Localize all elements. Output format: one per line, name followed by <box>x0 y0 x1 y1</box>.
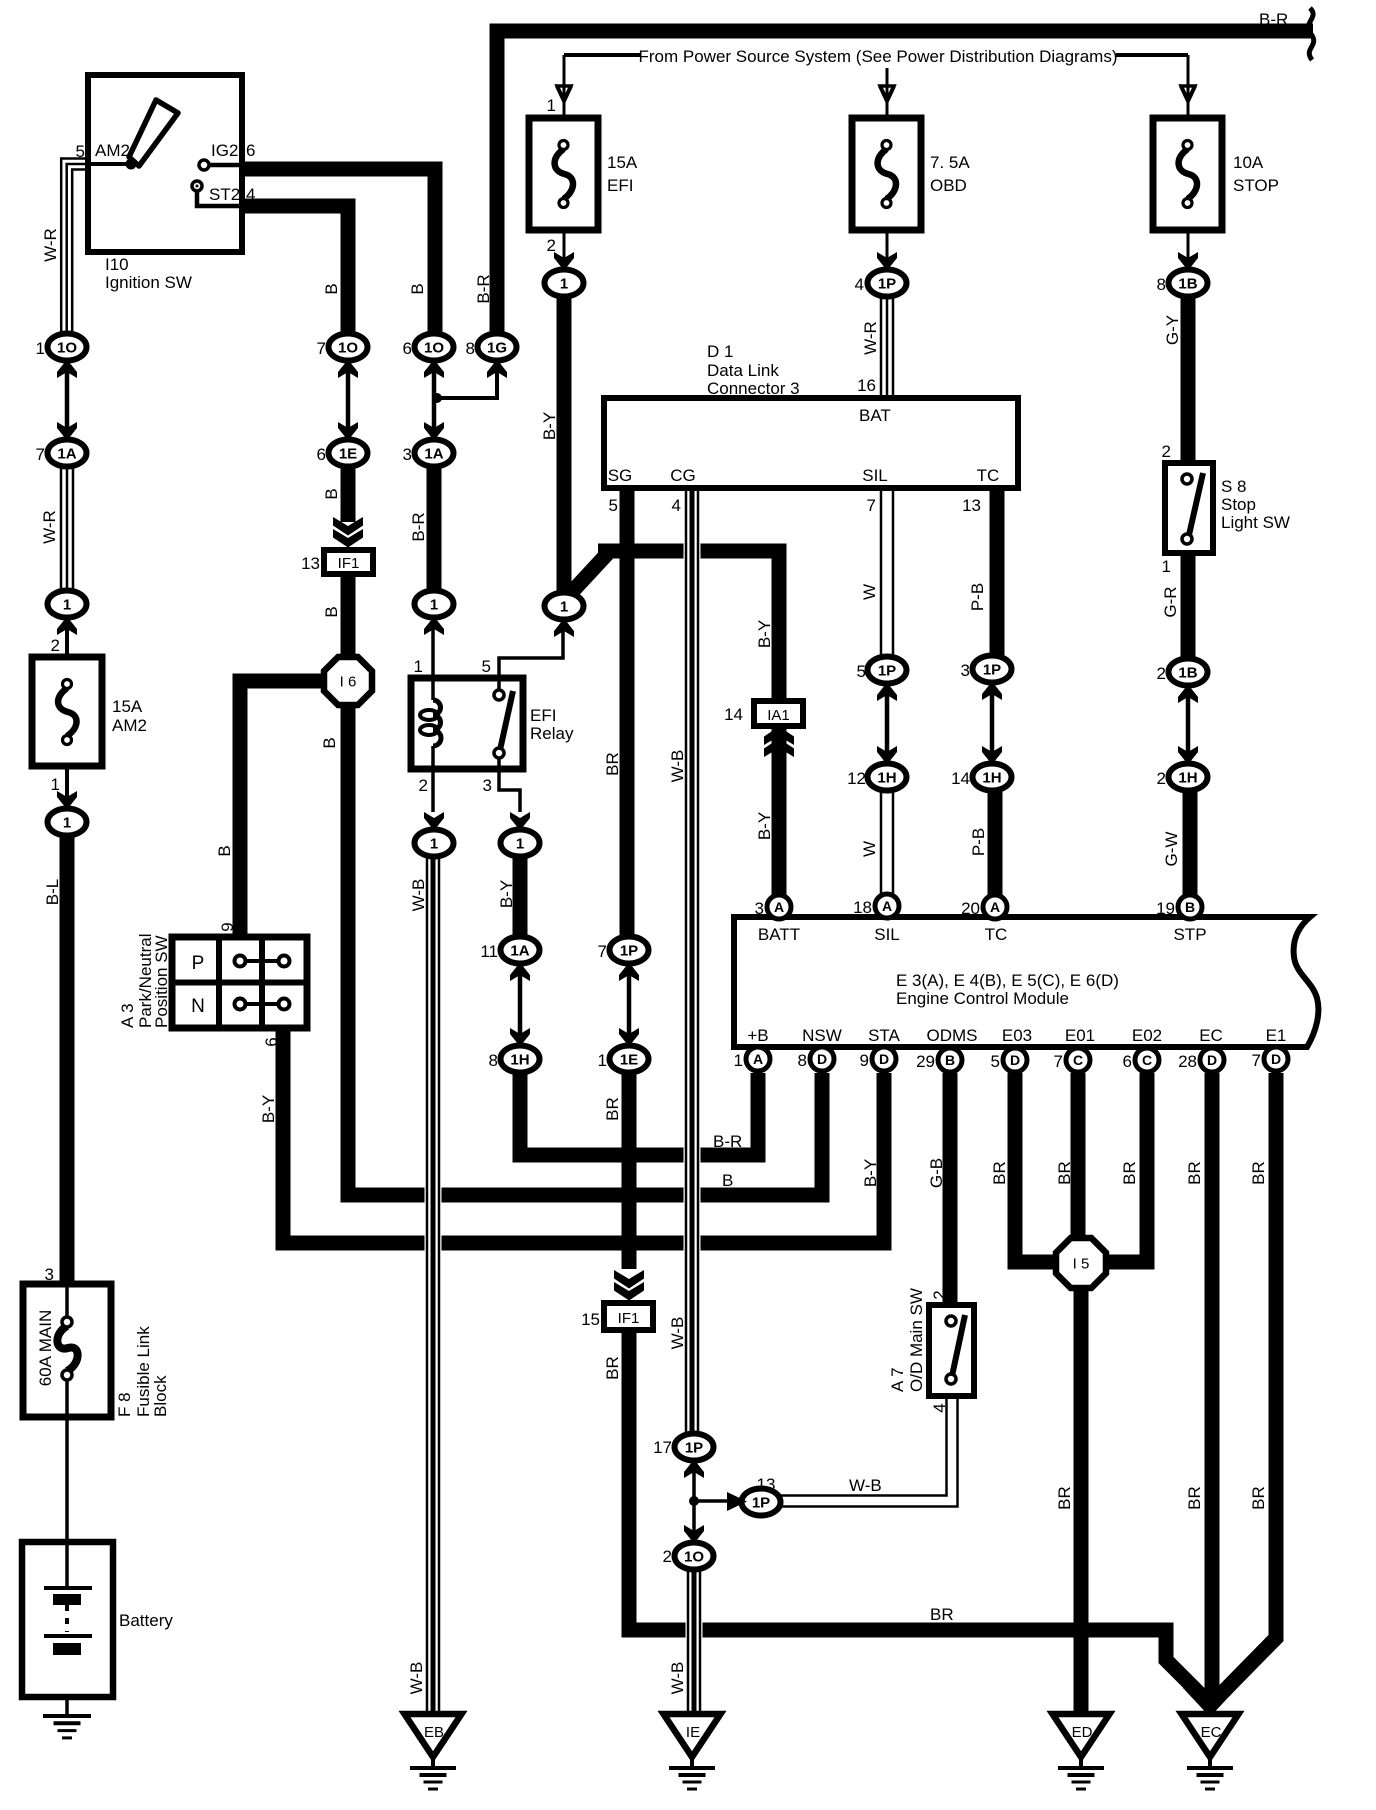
svg-text:EB: EB <box>424 1724 444 1741</box>
svg-text:15A: 15A <box>607 153 638 172</box>
svg-text:CG: CG <box>670 466 696 485</box>
svg-text:BR: BR <box>603 1356 622 1380</box>
svg-text:BAT: BAT <box>859 406 891 425</box>
svg-text:Battery: Battery <box>119 1611 173 1630</box>
svg-text:P: P <box>192 953 205 974</box>
svg-text:O/D Main SW: O/D Main SW <box>907 1288 926 1392</box>
svg-text:7: 7 <box>1252 1051 1261 1070</box>
svg-text:2: 2 <box>1157 769 1166 788</box>
svg-text:18: 18 <box>853 898 872 917</box>
svg-text:15: 15 <box>581 1310 600 1329</box>
svg-text:B-R: B-R <box>1259 10 1288 29</box>
svg-text:14: 14 <box>951 769 970 788</box>
svg-text:4: 4 <box>930 1403 949 1412</box>
svg-text:Block: Block <box>151 1375 170 1417</box>
svg-text:TC: TC <box>985 925 1008 944</box>
svg-text:2: 2 <box>51 636 60 655</box>
svg-text:P-B: P-B <box>968 583 987 611</box>
svg-text:E02: E02 <box>1132 1026 1162 1045</box>
svg-text:1O: 1O <box>424 340 444 357</box>
svg-text:7. 5A: 7. 5A <box>930 153 970 172</box>
svg-text:14: 14 <box>724 705 743 724</box>
svg-text:W-B: W-B <box>668 1317 687 1350</box>
svg-text:BR: BR <box>930 1605 954 1624</box>
svg-text:1: 1 <box>598 1051 607 1070</box>
svg-text:B: B <box>320 737 339 748</box>
svg-text:1P: 1P <box>878 276 896 293</box>
svg-text:B: B <box>945 1052 955 1068</box>
svg-text:1: 1 <box>547 96 556 115</box>
svg-text:6: 6 <box>317 445 326 464</box>
svg-text:1: 1 <box>51 775 60 794</box>
svg-text:3: 3 <box>961 661 970 680</box>
svg-text:B-Y: B-Y <box>861 1159 880 1187</box>
svg-text:B-Y: B-Y <box>497 880 516 908</box>
svg-text:BATT: BATT <box>758 925 800 944</box>
svg-text:1B: 1B <box>1178 665 1197 682</box>
svg-text:B-Y: B-Y <box>259 1095 278 1123</box>
svg-text:5: 5 <box>857 662 866 681</box>
svg-text:EFI: EFI <box>530 706 556 725</box>
svg-text:SG: SG <box>608 466 633 485</box>
svg-text:IA1: IA1 <box>767 707 790 724</box>
svg-text:1P: 1P <box>983 662 1001 679</box>
svg-text:1B: 1B <box>1178 276 1197 293</box>
svg-text:S 8: S 8 <box>1221 477 1247 496</box>
svg-text:7: 7 <box>317 339 326 358</box>
svg-text:B-L: B-L <box>43 879 62 905</box>
svg-text:+B: +B <box>747 1026 768 1045</box>
svg-text:A: A <box>990 899 1000 915</box>
svg-text:1H: 1H <box>982 770 1001 787</box>
svg-text:1A: 1A <box>57 446 76 463</box>
svg-text:A: A <box>753 1051 763 1067</box>
svg-text:7: 7 <box>36 445 45 464</box>
svg-text:1: 1 <box>63 815 71 832</box>
svg-text:7: 7 <box>867 496 876 515</box>
svg-text:B-R: B-R <box>713 1132 742 1151</box>
svg-text:Position SW: Position SW <box>152 935 171 1028</box>
svg-text:B: B <box>722 1171 733 1190</box>
svg-text:ODMS: ODMS <box>927 1026 978 1045</box>
svg-text:B: B <box>322 283 341 294</box>
svg-text:5: 5 <box>609 496 618 515</box>
svg-text:1P: 1P <box>878 663 896 680</box>
svg-text:1: 1 <box>36 339 45 358</box>
svg-text:16: 16 <box>857 376 876 395</box>
svg-text:1P: 1P <box>620 943 638 960</box>
svg-text:W-R: W-R <box>40 510 59 544</box>
svg-text:D: D <box>1207 1052 1217 1068</box>
svg-text:W-B: W-B <box>849 1476 882 1495</box>
svg-text:1P: 1P <box>685 1440 703 1457</box>
svg-text:G-W: G-W <box>1162 832 1181 867</box>
svg-text:B: B <box>322 606 341 617</box>
svg-text:W: W <box>860 584 879 600</box>
svg-text:TC: TC <box>977 466 1000 485</box>
svg-text:2: 2 <box>1157 664 1166 683</box>
svg-text:5: 5 <box>482 657 491 676</box>
svg-text:1: 1 <box>63 597 71 614</box>
svg-text:D: D <box>817 1051 827 1067</box>
svg-text:W-B: W-B <box>668 1662 687 1695</box>
svg-text:I 6: I 6 <box>340 674 357 691</box>
svg-text:8: 8 <box>798 1051 807 1070</box>
svg-text:P-B: P-B <box>969 828 988 856</box>
svg-text:15A: 15A <box>112 697 143 716</box>
svg-text:4: 4 <box>672 496 681 515</box>
svg-text:I10: I10 <box>105 255 129 274</box>
svg-text:IE: IE <box>686 1724 700 1741</box>
svg-text:B-Y: B-Y <box>540 412 559 440</box>
svg-text:D: D <box>1010 1052 1020 1068</box>
svg-text:SIL: SIL <box>874 925 900 944</box>
svg-text:4: 4 <box>246 185 255 204</box>
svg-text:IF1: IF1 <box>618 1310 640 1327</box>
svg-text:2: 2 <box>663 1547 672 1566</box>
svg-text:8: 8 <box>466 339 475 358</box>
svg-text:SIL: SIL <box>862 466 888 485</box>
svg-text:N: N <box>191 996 205 1017</box>
svg-text:1: 1 <box>734 1051 743 1070</box>
svg-text:10A: 10A <box>1233 153 1264 172</box>
svg-text:1A: 1A <box>424 446 443 463</box>
svg-text:8: 8 <box>489 1051 498 1070</box>
svg-text:W-R: W-R <box>41 228 60 262</box>
svg-text:6: 6 <box>403 339 412 358</box>
svg-text:EC: EC <box>1199 1026 1223 1045</box>
svg-text:ST2: ST2 <box>209 185 240 204</box>
svg-text:B-Y: B-Y <box>755 620 774 648</box>
svg-text:NSW: NSW <box>802 1026 842 1045</box>
svg-text:60A MAIN: 60A MAIN <box>36 1310 55 1387</box>
svg-text:5: 5 <box>76 142 85 161</box>
svg-text:3: 3 <box>403 445 412 464</box>
svg-text:Stop: Stop <box>1221 495 1256 514</box>
svg-text:D: D <box>1271 1051 1281 1067</box>
svg-text:C: C <box>1073 1052 1083 1068</box>
svg-text:19: 19 <box>1156 899 1175 918</box>
svg-text:OBD: OBD <box>930 176 967 195</box>
svg-text:B: B <box>215 845 234 856</box>
svg-text:W-B: W-B <box>407 1662 426 1695</box>
svg-text:1H: 1H <box>1178 770 1197 787</box>
svg-text:7: 7 <box>598 942 607 961</box>
svg-text:BR: BR <box>1185 1161 1204 1185</box>
svg-text:12: 12 <box>847 769 866 788</box>
svg-text:Relay: Relay <box>530 724 574 743</box>
svg-text:1G: 1G <box>487 340 507 357</box>
svg-text:BR: BR <box>1120 1161 1139 1185</box>
svg-text:D: D <box>879 1051 889 1067</box>
svg-text:6: 6 <box>246 141 255 160</box>
svg-text:G-R: G-R <box>1161 586 1180 617</box>
svg-text:2: 2 <box>1162 442 1171 461</box>
svg-text:13: 13 <box>301 554 320 573</box>
svg-text:28: 28 <box>1178 1052 1197 1071</box>
svg-text:1: 1 <box>516 836 524 853</box>
svg-text:1E: 1E <box>339 446 357 463</box>
svg-text:C: C <box>1142 1052 1152 1068</box>
svg-text:STP: STP <box>1173 925 1206 944</box>
svg-text:9: 9 <box>860 1051 869 1070</box>
svg-text:E 3(A), E 4(B), E 5(C), E 6(D): E 3(A), E 4(B), E 5(C), E 6(D) <box>896 971 1119 990</box>
svg-text:Connector 3: Connector 3 <box>707 379 800 398</box>
svg-text:1: 1 <box>414 657 423 676</box>
svg-text:4: 4 <box>855 275 864 294</box>
svg-text:1: 1 <box>430 836 438 853</box>
svg-text:EC: EC <box>1201 1724 1222 1741</box>
svg-text:BR: BR <box>1055 1161 1074 1185</box>
svg-text:A 3: A 3 <box>118 1003 137 1028</box>
svg-text:IF1: IF1 <box>338 555 360 572</box>
svg-text:1E: 1E <box>620 1052 638 1069</box>
svg-text:From Power Source System (See: From Power Source System (See Power Dist… <box>639 47 1118 66</box>
svg-text:A: A <box>882 898 892 914</box>
svg-text:BR: BR <box>1055 1486 1074 1510</box>
svg-text:2: 2 <box>419 776 428 795</box>
svg-text:ED: ED <box>1072 1724 1093 1741</box>
svg-text:1: 1 <box>560 276 568 293</box>
svg-text:D 1: D 1 <box>707 342 733 361</box>
svg-text:G-Y: G-Y <box>1163 315 1182 345</box>
svg-text:B-R: B-R <box>409 512 428 541</box>
svg-text:W-B: W-B <box>409 879 428 912</box>
svg-text:1H: 1H <box>877 770 896 787</box>
svg-text:BR: BR <box>1249 1161 1268 1185</box>
svg-text:6: 6 <box>1123 1052 1132 1071</box>
svg-text:20: 20 <box>961 899 980 918</box>
svg-text:1P: 1P <box>752 1495 770 1512</box>
svg-text:A: A <box>774 899 784 915</box>
svg-text:W: W <box>860 841 879 857</box>
svg-text:B: B <box>408 283 427 294</box>
svg-text:B: B <box>322 488 341 499</box>
svg-text:1O: 1O <box>338 340 358 357</box>
svg-text:W-B: W-B <box>668 750 687 783</box>
svg-text:8: 8 <box>1157 275 1166 294</box>
svg-text:I 5: I 5 <box>1073 1256 1090 1273</box>
svg-text:1H: 1H <box>510 1052 529 1069</box>
svg-text:1: 1 <box>430 597 438 614</box>
svg-text:B-R: B-R <box>474 274 493 303</box>
svg-text:1: 1 <box>560 599 568 616</box>
svg-text:3: 3 <box>45 1265 54 1284</box>
svg-text:STOP: STOP <box>1233 176 1279 195</box>
svg-text:Data Link: Data Link <box>707 361 779 380</box>
svg-text:13: 13 <box>757 1475 776 1494</box>
svg-text:6: 6 <box>262 1037 281 1046</box>
svg-text:3: 3 <box>755 899 764 918</box>
svg-text:BR: BR <box>1185 1486 1204 1510</box>
svg-text:B: B <box>1185 899 1195 915</box>
svg-text:5: 5 <box>991 1052 1000 1071</box>
svg-text:17: 17 <box>653 1438 672 1457</box>
svg-text:A 7: A 7 <box>888 1367 907 1392</box>
svg-text:Light SW: Light SW <box>1221 513 1290 532</box>
svg-text:BR: BR <box>990 1161 1009 1185</box>
svg-text:AM2: AM2 <box>112 716 147 735</box>
svg-text:1: 1 <box>1162 557 1171 576</box>
svg-text:G-B: G-B <box>927 1158 946 1188</box>
svg-text:29: 29 <box>916 1052 935 1071</box>
svg-text:2: 2 <box>547 236 556 255</box>
svg-text:13: 13 <box>962 496 981 515</box>
svg-text:2: 2 <box>930 1290 949 1299</box>
svg-text:E01: E01 <box>1065 1026 1095 1045</box>
svg-text:1O: 1O <box>57 340 77 357</box>
svg-text:STA: STA <box>868 1026 900 1045</box>
svg-text:EFI: EFI <box>607 176 633 195</box>
svg-text:W-R: W-R <box>861 321 880 355</box>
svg-text:7: 7 <box>1054 1052 1063 1071</box>
svg-text:BR: BR <box>1249 1486 1268 1510</box>
svg-text:E03: E03 <box>1002 1026 1032 1045</box>
svg-text:Ignition SW: Ignition SW <box>105 273 192 292</box>
svg-text:11: 11 <box>480 942 498 961</box>
svg-text:9: 9 <box>218 922 237 931</box>
svg-text:AM2: AM2 <box>95 141 130 160</box>
svg-text:BR: BR <box>603 752 622 776</box>
svg-text:B-Y: B-Y <box>755 812 774 840</box>
svg-text:Engine Control Module: Engine Control Module <box>896 989 1069 1008</box>
svg-text:1O: 1O <box>684 1549 704 1566</box>
svg-text:E1: E1 <box>1266 1026 1287 1045</box>
svg-text:F 8: F 8 <box>115 1392 134 1417</box>
svg-text:IG2: IG2 <box>211 141 238 160</box>
svg-text:1A: 1A <box>510 943 529 960</box>
svg-text:3: 3 <box>483 776 492 795</box>
svg-text:BR: BR <box>603 1097 622 1121</box>
